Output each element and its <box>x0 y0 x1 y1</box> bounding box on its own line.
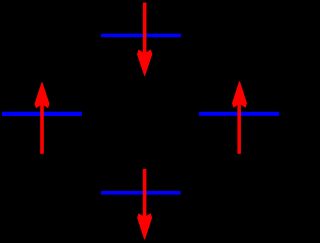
spin arrow bottom (red, down): head <box>137 213 152 240</box>
spin arrow left (red, up): shaft <box>40 88 44 154</box>
level line left (blue bar) <box>2 112 82 116</box>
level line bottom (blue bar) <box>101 191 181 195</box>
spin arrow top (red, down): head <box>137 50 152 77</box>
spin arrow left (red, up): head <box>35 82 50 108</box>
spin arrow right (red, up): head <box>232 81 247 108</box>
spin arrow right (red, up): shaft <box>237 87 241 154</box>
level line top (blue bar) <box>101 34 181 38</box>
spin arrow top (red, down): shaft <box>143 3 147 71</box>
spin arrow bottom (red, down): shaft <box>143 169 147 234</box>
level line right (blue bar) <box>199 112 279 116</box>
